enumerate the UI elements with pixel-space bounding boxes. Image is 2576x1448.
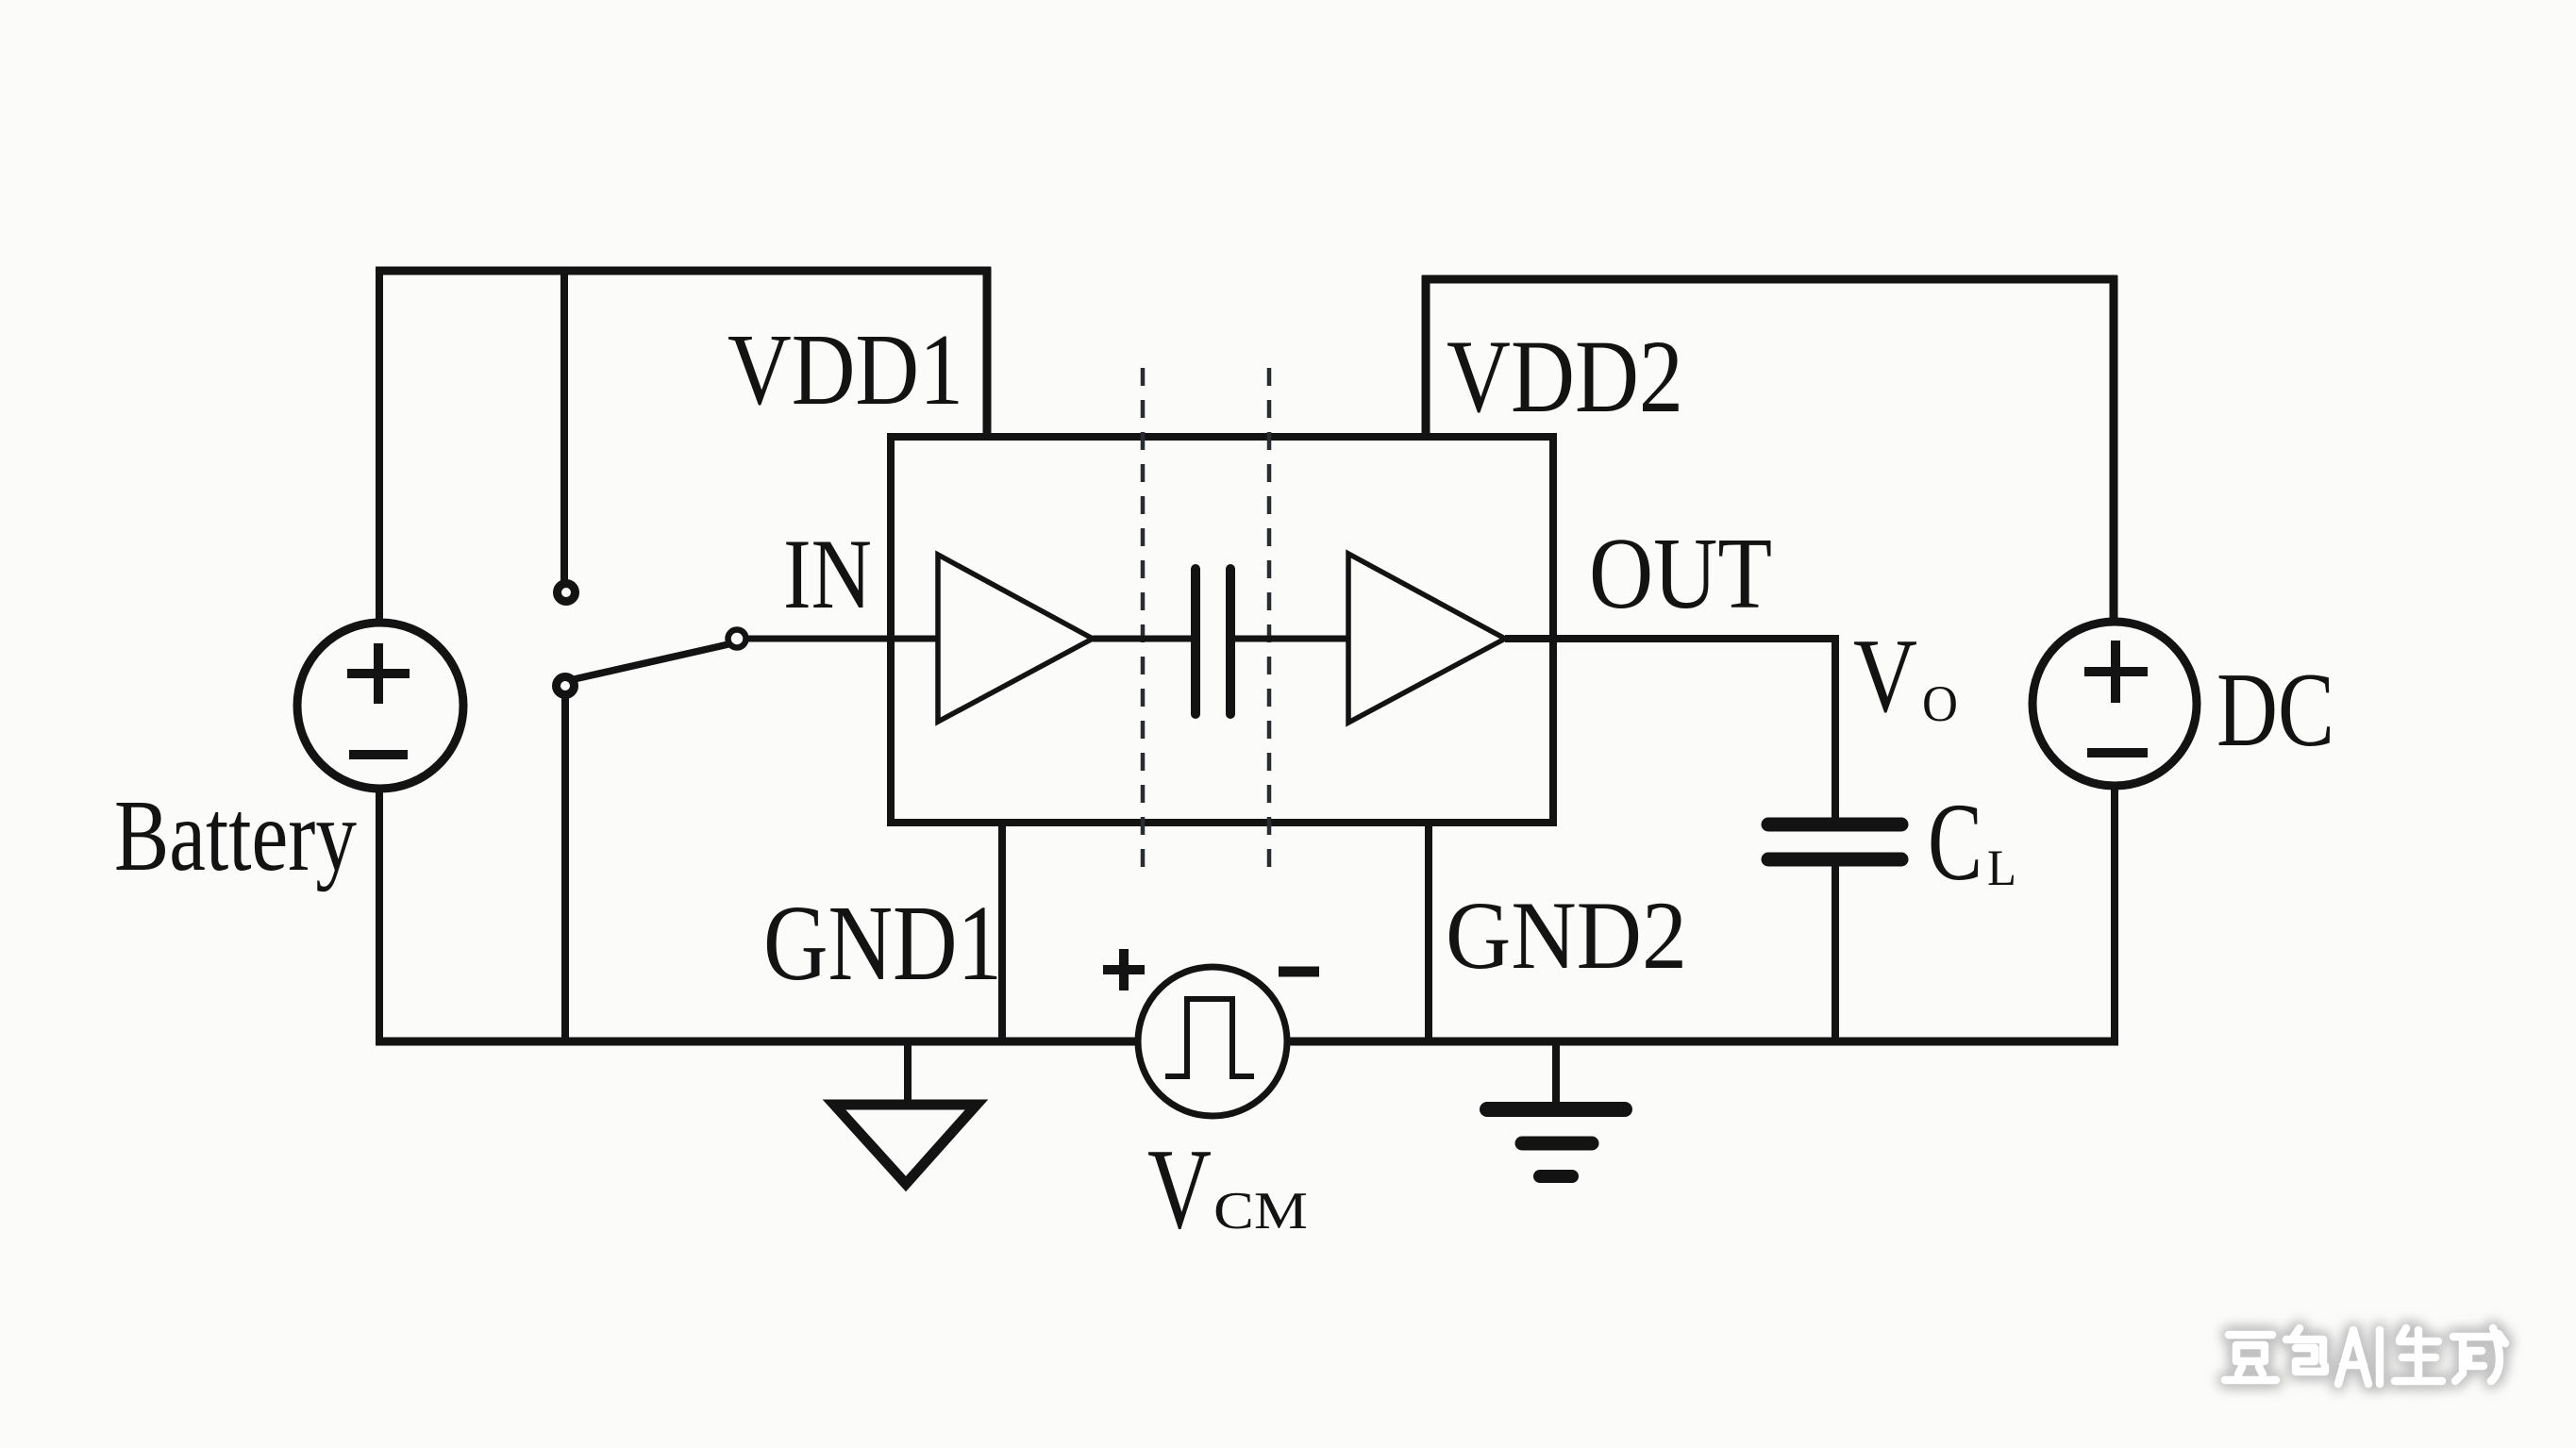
isolation barrier dashed line right (1267, 368, 1272, 878)
wire VDD2 to DC source (2110, 275, 2118, 625)
wire GND2 pin of isolator (1425, 821, 1432, 1045)
capacitor CL (1768, 824, 1901, 859)
earth ground GND2 (1487, 1109, 1625, 1176)
capacitor C1 isolation barrier (1196, 569, 1230, 714)
wire GND1 pin of isolator (998, 821, 1006, 1041)
svg-text:DC: DC (2216, 652, 2334, 769)
wire VDD2 drop to isolator (1422, 275, 1430, 441)
wire VDD1 drop to isolator (983, 267, 992, 441)
svg-text:C: C (1928, 780, 1982, 904)
battery BT1 (297, 623, 463, 789)
wire isolation capacitor to buffer A2 (1235, 636, 1351, 642)
buffer A2 (1348, 554, 1505, 723)
wire VDD2 top rail (1422, 275, 2117, 284)
wire GND2 bottom bus (1285, 1038, 2118, 1046)
svg-text:OUT: OUT (1589, 518, 1772, 630)
watermark 豆包AI生成 (2225, 1328, 2505, 1384)
wire GND1 bottom bus (376, 1038, 1140, 1046)
wire GND2 bus to earth ground (1552, 1041, 1560, 1109)
isolation barrier dashed line left (1141, 368, 1146, 878)
svg-text:IN: IN (783, 519, 872, 629)
wire IN (745, 636, 891, 642)
wire CL to GND2 bus (1832, 865, 1839, 1045)
svg-text:L: L (1987, 840, 2016, 896)
wire GND1 bus to signal ground (904, 1041, 912, 1106)
wire VO node to CL (1832, 635, 1839, 819)
switch S1 (557, 584, 746, 695)
dc source V1 (2032, 622, 2197, 786)
vcm source pulse generator (1103, 949, 1319, 1116)
ground GND1 signal ground triangle (834, 1105, 977, 1184)
wire battery positive lead (376, 267, 383, 623)
wire buffer A1 to isolation capacitor (1093, 636, 1191, 642)
isolator U1 package (891, 437, 1553, 823)
svg-text:VDD2: VDD2 (1447, 319, 1683, 434)
wire OUT (1505, 635, 1839, 642)
wire battery negative lead (376, 791, 383, 1045)
wire switch pole to GND1 bus (561, 696, 569, 1041)
svg-text:V: V (1853, 618, 1917, 735)
svg-text:VDD1: VDD1 (728, 314, 963, 426)
svg-text:CM: CM (1213, 1182, 1308, 1240)
svg-text:V: V (1147, 1125, 1212, 1253)
wire VDD1 top rail (376, 267, 991, 275)
wire DC negative lead (2111, 783, 2118, 1045)
svg-text:Battery: Battery (114, 780, 357, 892)
svg-text:O: O (1922, 675, 1958, 732)
svg-text:GND1: GND1 (763, 883, 1002, 1003)
buffer A1 (938, 555, 1093, 722)
svg-text:GND2: GND2 (1446, 882, 1687, 990)
wire input signal inside isolator (891, 636, 941, 642)
wire switch throw branch (560, 267, 568, 581)
